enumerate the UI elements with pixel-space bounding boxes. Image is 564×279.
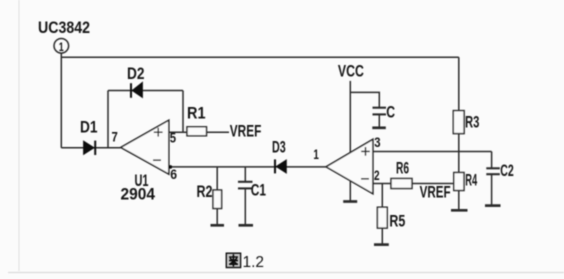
svg-text:R4: R4 xyxy=(465,172,477,190)
wire R5 to ground xyxy=(381,228,383,244)
resistor R1 xyxy=(187,127,207,136)
resistor R6 xyxy=(391,179,412,189)
svg-text:R6: R6 xyxy=(396,160,409,178)
svg-text:UC3842: UC3842 xyxy=(38,19,90,37)
wire op-amp U2 bottom to ground xyxy=(349,181,351,201)
capacitor C xyxy=(373,108,387,115)
svg-text:2: 2 xyxy=(374,167,380,183)
svg-text:1.2: 1.2 xyxy=(243,254,265,271)
wire C2 to ground xyxy=(491,174,493,205)
op-amp U2 minus input sign xyxy=(361,178,369,180)
wire pin2 to R6 and R4 xyxy=(373,183,454,185)
ground under R5 xyxy=(374,243,389,246)
svg-text:C1: C1 xyxy=(251,182,266,200)
wire R4 to ground xyxy=(458,191,460,211)
wire VCC tee to capacitor C xyxy=(350,92,379,107)
wire C1 stub from pin6 line xyxy=(244,167,246,182)
svg-text:1: 1 xyxy=(313,146,319,162)
wire left vertical from pin1 down xyxy=(60,53,62,148)
resistor R3 xyxy=(453,111,464,134)
wire pin1 corner to D1 to op-amp U1 output xyxy=(61,147,120,149)
wire pin3 rail to R4 xyxy=(458,152,460,173)
svg-text:VCC: VCC xyxy=(338,63,364,81)
op-amp U2 triangle xyxy=(326,139,373,194)
wire top rail from pin1 to right column xyxy=(61,56,459,58)
resistor R4 xyxy=(454,173,464,191)
scan artifact vertical line xyxy=(18,0,20,271)
op-amp U1 triangle xyxy=(121,120,169,174)
svg-text:D2: D2 xyxy=(127,65,145,83)
wire C to ground xyxy=(378,114,380,127)
diode D1 xyxy=(84,141,96,155)
wire pin5 output to R1 and VREF xyxy=(169,131,229,133)
diode D3 xyxy=(275,159,286,173)
wire D2 feedback loop left branch xyxy=(107,91,109,148)
svg-text:3: 3 xyxy=(374,134,380,150)
capacitor C2 xyxy=(486,168,500,174)
node pin 1 circled xyxy=(54,39,69,54)
ground under R4 xyxy=(451,209,468,212)
wire C2 stub from pin3 rail xyxy=(491,152,493,169)
caption figure 1.2 xyxy=(226,253,264,271)
op-amp U1 plus input sign xyxy=(154,128,163,137)
svg-text:VREF: VREF xyxy=(230,123,261,141)
wire C1 to ground xyxy=(244,188,246,225)
svg-text:R1: R1 xyxy=(187,105,206,123)
ground under C xyxy=(372,126,386,129)
svg-text:7: 7 xyxy=(112,129,118,145)
wire right column vertical down to R3 xyxy=(458,57,460,111)
wire R5 stub from pin2 line xyxy=(381,184,383,208)
svg-text:R2: R2 xyxy=(197,183,213,201)
svg-text:D3: D3 xyxy=(272,139,286,157)
capacitor C1 xyxy=(238,182,253,189)
wire VCC vertical to op-amp top xyxy=(349,81,351,153)
svg-text:R3: R3 xyxy=(465,114,479,132)
svg-text:1: 1 xyxy=(59,40,64,54)
wire D2 feedback loop top xyxy=(108,90,183,92)
svg-text:2904: 2904 xyxy=(121,186,156,204)
svg-text:D1: D1 xyxy=(80,119,98,137)
op-amp U1 minus input sign xyxy=(153,159,161,161)
scan artifact horizontal line xyxy=(8,272,564,274)
op-amp U2 plus input sign xyxy=(361,147,370,156)
ground under C1 xyxy=(239,224,254,227)
svg-text:C2: C2 xyxy=(500,162,514,180)
junction pin6 xyxy=(169,165,173,169)
wire R3 to pin3 rail xyxy=(458,134,460,152)
ground under C2 xyxy=(485,204,501,207)
svg-text:C: C xyxy=(386,104,395,122)
ground under R2 xyxy=(211,224,225,227)
wire R2 stub from pin6 line xyxy=(216,167,218,190)
resistor R2 xyxy=(213,190,222,209)
resistor R5 xyxy=(377,207,387,228)
ground under op-amp U2 xyxy=(343,200,357,203)
svg-text:VREF: VREF xyxy=(420,184,451,202)
svg-text:R5: R5 xyxy=(389,213,405,231)
diode D2 xyxy=(131,82,142,97)
wire pin3 rail to C2 xyxy=(373,151,492,153)
wire D2 feedback loop right branch xyxy=(182,91,184,133)
wire R2 to ground xyxy=(216,209,218,226)
wire pin6 output to D3 and op-amp U2 xyxy=(169,166,326,168)
